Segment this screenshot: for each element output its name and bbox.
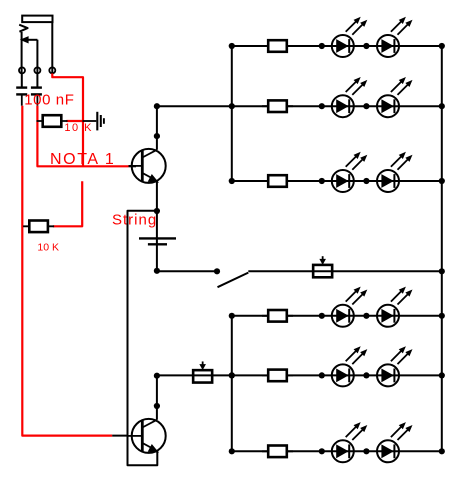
wire (red) C1 to R2 and Q2 base - long left vertical (22, 106, 112, 436)
wire LED row 3 (232, 180, 442, 182)
resistor R2 10K (23, 221, 54, 233)
junction row 3 left bus (229, 178, 235, 184)
wire Q1 base stub (black) (129, 165, 136, 167)
wire (red) R2 right lead up (unconnected end) (53, 181, 82, 226)
LED at (388.0,451.3) (377, 422, 413, 462)
junction row 4 before first LED (319, 313, 325, 319)
NPN transistor Q1 (129, 149, 166, 183)
audio jack J1 body (22, 16, 52, 23)
LED at (342.8,375.4) (332, 346, 368, 386)
junction P2 row left bend (154, 373, 160, 379)
resistor R6 (row 4) (262, 310, 293, 322)
jack tip contact (chevron) (19, 25, 27, 32)
jack ring lead (middle) (36, 40, 38, 74)
LED at (388.0,375.4) (377, 346, 413, 386)
wire collector node up/right to LED bus row 2 (157, 106, 232, 136)
capacitor C2 (100 nF) (31, 88, 42, 106)
trimmer potentiometer P2 (193, 361, 212, 382)
junction row 5 left bus (229, 372, 235, 378)
LED at (388.0,106.2) (377, 77, 413, 117)
wire LED row 5 (232, 374, 442, 376)
wire Q2 collector node up (156, 376, 158, 406)
junction row 1 between LEDs (363, 43, 369, 49)
svg-text:10 K: 10 K (37, 242, 59, 254)
wire (red) jack sleeve to NOTA 1 line (52, 73, 83, 166)
junction row 2 right bus (439, 103, 445, 109)
junction row 1 right bus (439, 43, 445, 49)
junction row 4 left bus (229, 313, 235, 319)
svg-text:100 nF: 100 nF (24, 92, 74, 109)
junction row 4 between LEDs (363, 313, 369, 319)
wire LED row 6 (232, 450, 442, 452)
wire String net: battery+ node to Q2 emitter loop (128, 211, 158, 465)
LED at (342.8,315.8) (332, 287, 368, 327)
wire LED row 4 (232, 315, 442, 317)
svg-text:10 K: 10 K (64, 122, 93, 134)
wire (red) R1 right lead to sleeve net (66, 120, 83, 122)
capacitor C2 lead from jack pin 2 (36, 73, 38, 87)
wire left bus top LED group (231, 46, 233, 181)
capacitor C1 lead from jack pin 1 (21, 73, 23, 87)
jack tip lead (left) (21, 32, 23, 74)
junction Q2 collector bend (154, 403, 160, 409)
junction row 5 before first LED (319, 372, 325, 378)
ground symbol (82, 112, 104, 131)
jack pin 3 (sleeve) (49, 67, 55, 73)
LED at (342.8,181.0) (332, 152, 368, 192)
wire battery - to switch (157, 270, 217, 272)
junction P1 row at right bus (439, 268, 445, 274)
wire switch to potentiometer P1 (248, 270, 441, 272)
resistor R4 (row 2) (262, 100, 293, 112)
LED at (342.8,106.2) (332, 77, 368, 117)
junction row 3 before first LED (319, 178, 325, 184)
junction switch left terminal (214, 268, 220, 274)
junction row 2 left bus (229, 103, 235, 109)
jack sleeve lead (right) (51, 22, 53, 73)
resistor R7 (row 5) (262, 370, 293, 382)
resistor R8 (row 6) (262, 446, 293, 458)
LED at (388.0,315.8) (377, 287, 413, 327)
wire battery positive lead (156, 211, 158, 271)
wire right bus (441, 46, 443, 451)
junction collector wire bend (154, 103, 160, 109)
wire (red) to Q2 base (112, 435, 128, 437)
battery B1 (139, 238, 176, 244)
junction row 1 left bus (229, 43, 235, 49)
resistor R1 10K (base pulldown) (37, 115, 68, 127)
capacitor C1 (100 nF) (16, 88, 27, 106)
trimmer potentiometer P1 (313, 256, 332, 277)
junction row 2 before first LED (319, 103, 325, 109)
switch S1 (open blade) (218, 273, 249, 288)
resistor R5 (row 3) (262, 175, 293, 187)
junction row 5 right bus (439, 372, 445, 378)
jack pin 2 (ring) (34, 67, 40, 73)
jack pin 1 (tip) (19, 67, 25, 73)
junction row 1 before first LED (319, 43, 325, 49)
wire Q1 emitter down to battery node (156, 181, 158, 211)
jack switch arrow (28, 39, 37, 41)
junction battery + node (154, 208, 160, 214)
svg-text:String: String (112, 211, 157, 228)
resistor R3 (row 1) (262, 40, 293, 52)
svg-text:NOTA 1: NOTA 1 (50, 151, 115, 168)
LED at (388.0,181.0) (377, 152, 413, 192)
junction row 6 left bus (229, 448, 235, 454)
junction Q1 collector bend (154, 133, 160, 139)
wire Q2 collector up (156, 406, 158, 420)
junction row 6 right bus (439, 448, 445, 454)
junction row 2 between LEDs (363, 103, 369, 109)
junction row 3 between LEDs (363, 178, 369, 184)
junction P2 at bottom bus (4-way) (229, 372, 235, 378)
LED at (388.0,46.0) (377, 17, 413, 57)
LED at (342.8,451.3) (332, 422, 368, 462)
wire LED row 1 (232, 45, 442, 47)
LED at (342.8,46.0) (332, 17, 368, 57)
junction row 5 between LEDs (363, 372, 369, 378)
junction row 3 right bus (439, 178, 445, 184)
junction row 6 between LEDs (363, 448, 369, 454)
wire LED row 2 (232, 105, 442, 107)
junction battery - bend (154, 268, 160, 274)
junction row 6 before first LED (319, 448, 325, 454)
wire left bus bottom LED group (231, 316, 233, 452)
wire Q2 collector through P2 to bottom bus (157, 374, 232, 376)
junction row 4 right bus (439, 313, 445, 319)
NPN transistor Q2 (129, 419, 166, 453)
wire (red) C2 down to NOTA 1 node (37, 106, 128, 167)
wire Q1 collector up to node (156, 136, 158, 150)
